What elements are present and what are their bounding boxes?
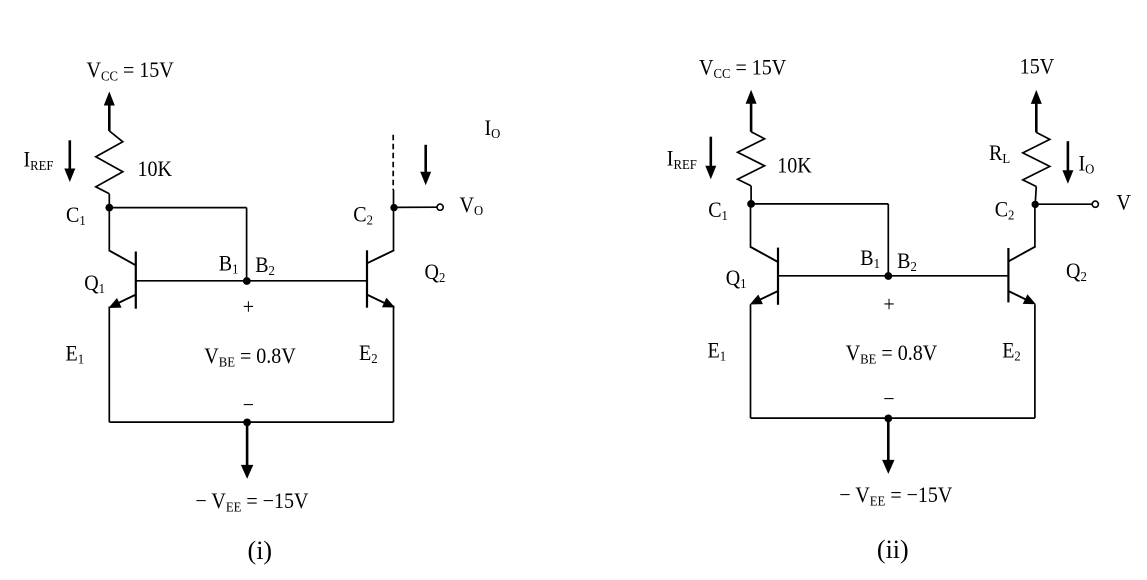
svg-text:VCC = 15V: VCC = 15V [699, 55, 786, 82]
transistor Q1 (i) [109, 208, 136, 423]
svg-text:+: + [243, 294, 254, 319]
wire base rail Q1 to Q2 (i) [136, 280, 367, 282]
resistor RL (ii) [1023, 132, 1050, 186]
wire resistor to node C1 (i) [108, 194, 110, 208]
svg-text:C2: C2 [995, 197, 1015, 223]
svg-text:− VEE = −15V: − VEE = −15V [196, 488, 309, 515]
node emitter rail junction (ii) [884, 415, 892, 423]
svg-text:B1: B1 [219, 250, 239, 276]
svg-text:IO: IO [1079, 151, 1095, 177]
terminal VO circle (i) [437, 204, 443, 210]
svg-text:V: V [1117, 190, 1131, 215]
node C1 (ii) [747, 200, 755, 208]
svg-text:E1: E1 [66, 341, 85, 367]
IO current arrow (i) [420, 145, 431, 185]
svg-text:VCC = 15V: VCC = 15V [87, 57, 174, 84]
svg-text:Q2: Q2 [425, 259, 446, 285]
svg-text:IO: IO [485, 115, 501, 141]
svg-text:Q2: Q2 [1066, 258, 1087, 284]
svg-text:(ii): (ii) [877, 535, 909, 564]
wire RL to node C2 (ii) [1035, 187, 1036, 205]
svg-text:(i): (i) [248, 536, 273, 565]
svg-text:B2: B2 [897, 248, 917, 274]
svg-text:VBE = 0.8V: VBE = 0.8V [204, 343, 295, 370]
wire C2 to output terminal (i) [394, 206, 437, 208]
VCC supply arrow (ii) [746, 90, 757, 132]
transistor Q2 (i) [367, 190, 395, 422]
transistor Q2 (ii) [1008, 204, 1036, 418]
supply arrow RL (ii) [1031, 90, 1042, 132]
wire base column vertical (i) [246, 208, 248, 281]
wire C2 to output terminal (ii) [1035, 203, 1092, 205]
IREF current arrow (i) [64, 140, 75, 182]
svg-text:IREF: IREF [24, 147, 54, 174]
VCC supply arrow (i) [104, 92, 115, 131]
wire C1 to base column (ii) [751, 203, 888, 205]
svg-text:C1: C1 [66, 202, 86, 228]
svg-text:IREF: IREF [667, 146, 697, 173]
svg-text:Q1: Q1 [84, 270, 105, 296]
svg-text:Q1: Q1 [726, 265, 747, 291]
resistor R1 10K (i) [96, 131, 123, 194]
wire resistor to node C1 (ii) [750, 186, 752, 204]
svg-text:RL: RL [989, 140, 1010, 166]
node C2 (ii) [1032, 201, 1039, 208]
VEE arrow (i) [241, 422, 253, 479]
svg-text:E2: E2 [1002, 338, 1021, 364]
node B junction (i) [243, 277, 251, 285]
svg-text:VBE = 0.8V: VBE = 0.8V [846, 340, 937, 367]
wire base rail Q1 to Q2 (ii) [778, 275, 1008, 277]
svg-text:B1: B1 [860, 245, 880, 271]
svg-text:15V: 15V [1020, 54, 1054, 79]
transistor Q1 (ii) [750, 204, 778, 418]
IO current arrow (ii) [1062, 141, 1073, 184]
node C1 (i) [105, 204, 113, 212]
wire bottom emitter rail (i) [109, 421, 393, 423]
node emitter rail junction (i) [243, 419, 251, 427]
svg-text:C2: C2 [353, 201, 373, 227]
resistor R1 10K (ii) [738, 132, 765, 186]
svg-text:C1: C1 [708, 197, 728, 223]
svg-text:E2: E2 [359, 340, 378, 366]
node C2 (i) [390, 204, 397, 211]
dashed collector stub (i) [392, 135, 394, 190]
node B junction (ii) [884, 272, 892, 280]
terminal V circle (ii) [1092, 201, 1098, 207]
wire C1 to base column (i) [109, 207, 246, 209]
svg-text:E1: E1 [708, 338, 727, 364]
svg-text:B2: B2 [255, 252, 275, 278]
svg-text:−: − [883, 386, 894, 411]
svg-text:VO: VO [460, 192, 484, 218]
svg-text:10K: 10K [777, 153, 811, 178]
IREF current arrow (ii) [705, 137, 716, 180]
VEE arrow (ii) [882, 418, 894, 474]
svg-text:10K: 10K [138, 156, 172, 181]
wire base column vertical (ii) [887, 204, 889, 276]
svg-text:+: + [883, 292, 894, 317]
svg-text:− VEE = −15V: − VEE = −15V [839, 482, 952, 509]
wire bottom emitter rail (ii) [751, 417, 1035, 419]
svg-text:−: − [243, 392, 254, 417]
